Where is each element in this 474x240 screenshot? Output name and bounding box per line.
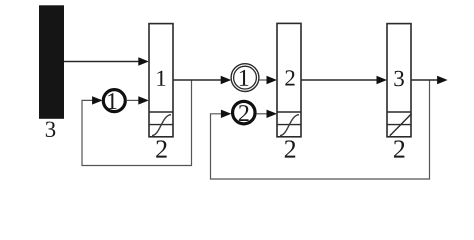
circle 1 (bold) (103, 90, 125, 112)
block 3 divider (387, 111, 411, 113)
wire circle 1 to block 1 (126, 99, 139, 101)
source bar block (filled) (39, 5, 64, 119)
block 3 linear icon (387, 124, 411, 126)
arrowhead into block 1 top input (138, 57, 149, 65)
label 2 under block 3 (394, 140, 404, 157)
arrowhead into double circle (221, 76, 232, 84)
wire circle 2 to block 2 (256, 113, 268, 115)
arrowhead into circle 2 (221, 110, 232, 118)
circle 2 digit 2 (239, 105, 249, 121)
block 2 sigmoid icon (277, 124, 301, 126)
label 2 under block 1 (156, 140, 166, 157)
block 2 divider (277, 111, 301, 113)
block 2 digit 2 (285, 70, 294, 85)
arrowhead into block 2 top input (267, 76, 278, 84)
left feedback wire (block1 output down and around to circle 1) (82, 80, 192, 166)
arrowhead into block 2 bottom input (267, 110, 278, 118)
block 2 rectangle (277, 23, 301, 136)
block 3 digit 3 (394, 71, 404, 86)
double circle digit 1 (240, 70, 248, 86)
arrowhead into circle 1 (92, 96, 103, 104)
double circle 1 (231, 64, 259, 92)
output wire from block 3 (411, 79, 439, 81)
right feedback wire (block3 output down and around to circle 2) (211, 80, 430, 179)
arrowhead into block 3 input (377, 76, 388, 84)
arrowhead into block 1 bottom input (138, 96, 149, 104)
circle 2 (bold) (233, 101, 256, 124)
wire double circle to block 2 (259, 79, 268, 81)
block 1 divider (149, 111, 173, 113)
block 3 rectangle (387, 24, 411, 137)
block 1 digit 1 (157, 71, 165, 86)
circle 1 digit 1 (108, 93, 116, 109)
block 1 sigmoid icon (149, 124, 173, 126)
wire bar to block 1 (64, 61, 140, 63)
block 1 rectangle (149, 24, 173, 137)
wire block 2 to block 3 (301, 79, 378, 81)
wire block 1 to double circle (173, 79, 222, 81)
output arrowhead (437, 76, 448, 84)
label 3 under bar (46, 122, 56, 137)
label 2 under block 2 (285, 140, 295, 157)
